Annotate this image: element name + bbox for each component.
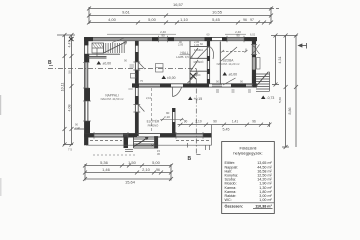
- svg-text:1,41: 1,41: [232, 120, 238, 124]
- svg-text:96: 96: [243, 18, 247, 22]
- svg-text:10,55: 10,55: [212, 10, 223, 15]
- svg-text:KAMRA: KAMRA: [194, 48, 203, 52]
- svg-text:±0,00: ±0,00: [229, 72, 238, 76]
- svg-text:5,45: 5,45: [223, 127, 230, 131]
- svg-text:15,64: 15,64: [125, 180, 136, 185]
- svg-text:±0,00: ±0,00: [103, 61, 112, 65]
- svg-text:NAGYM. 44,50 m²: NAGYM. 44,50 m²: [101, 97, 124, 101]
- svg-text:2,40: 2,40: [75, 126, 81, 130]
- svg-text:WC: WC: [196, 73, 200, 77]
- svg-text:1,50: 1,50: [128, 160, 137, 165]
- svg-text:5,60: 5,60: [278, 97, 282, 103]
- svg-text:2,10: 2,10: [142, 167, 151, 172]
- svg-text:PIHENŐ: PIHENŐ: [148, 122, 160, 127]
- svg-text:5,00: 5,00: [152, 160, 161, 165]
- svg-text:helyiségjegyzék:: helyiségjegyzék:: [233, 150, 262, 155]
- svg-text:7 5: 7 5: [68, 148, 72, 152]
- svg-text:LAPB. 9,5 m²: LAPB. 9,5 m²: [176, 55, 193, 59]
- svg-text:90: 90: [213, 120, 217, 124]
- svg-text:±0,00: ±0,00: [167, 76, 176, 80]
- svg-text:5,36: 5,36: [100, 160, 109, 165]
- svg-text:-0,73: -0,73: [267, 96, 275, 100]
- svg-text:8,86: 8,86: [288, 108, 292, 115]
- svg-text:5,45: 5,45: [212, 17, 221, 22]
- svg-text:110,38 m²: 110,38 m²: [255, 204, 272, 208]
- svg-text:4,00: 4,00: [108, 17, 117, 22]
- svg-text:Összesen:: Összesen:: [225, 203, 243, 208]
- svg-text:2,10: 2,10: [164, 115, 170, 119]
- svg-text:NAGYM. 14,20 m²: NAGYM. 14,20 m²: [217, 62, 240, 66]
- svg-text:1,00 m²: 1,00 m²: [259, 198, 272, 202]
- svg-text:5,00: 5,00: [148, 17, 157, 22]
- svg-text:9,61: 9,61: [122, 10, 131, 15]
- svg-text:4,47: 4,47: [67, 41, 71, 48]
- svg-text:4,08: 4,08: [67, 105, 71, 112]
- svg-text:2,10: 2,10: [146, 96, 152, 100]
- svg-text:10,11: 10,11: [61, 83, 65, 92]
- svg-text:90: 90: [184, 120, 188, 124]
- svg-text:96: 96: [252, 120, 256, 124]
- svg-text:B: B: [48, 60, 52, 66]
- svg-text:1,05: 1,05: [194, 43, 200, 47]
- svg-text:96: 96: [156, 168, 160, 172]
- svg-text:WC:: WC:: [225, 198, 232, 202]
- svg-text:B: B: [188, 156, 192, 162]
- svg-text:16,57: 16,57: [173, 2, 184, 7]
- svg-text:97: 97: [250, 18, 254, 22]
- svg-text:1,10: 1,10: [180, 17, 189, 22]
- svg-text:2,10: 2,10: [195, 120, 201, 124]
- svg-text:56: 56: [67, 70, 71, 74]
- svg-text:2,05: 2,05: [178, 43, 184, 47]
- svg-text:+0,15: +0,15: [194, 97, 203, 101]
- svg-text:4,31: 4,31: [278, 57, 282, 64]
- svg-text:1,46: 1,46: [102, 167, 111, 172]
- svg-text:6,02: 6,02: [250, 33, 256, 37]
